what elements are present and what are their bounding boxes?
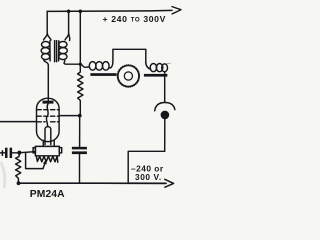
- key/jack upper arc: [155, 103, 175, 111]
- wire: rail to transformer primary top: [44, 11, 48, 40]
- wire: secondary bottom to node: [64, 60, 80, 65]
- tube base body: [35, 146, 59, 155]
- tube V1 grid 2 (dashed): [37, 115, 59, 117]
- resistor R1 (vertical zigzag): [78, 64, 83, 115]
- svg-text:300 V.: 300 V.: [135, 172, 162, 182]
- tube V1 internal lead squiggle: [46, 104, 48, 127]
- scan speck near L2: [167, 62, 171, 64]
- tube base neck: [42, 140, 44, 146]
- core bar of L2: [144, 74, 168, 77]
- wire: C1 to grid node: [12, 152, 19, 154]
- svg-text:+ 240 TO 300V: + 240 TO 300V: [103, 14, 166, 24]
- transformer T1 core: [54, 41, 56, 62]
- wire: rail to transformer secondary top: [65, 11, 69, 40]
- tube base right tab: [59, 148, 61, 153]
- node: R2 to bottom rail: [17, 181, 21, 185]
- wire bottom rail: [18, 182, 166, 184]
- wire: key down to step: [164, 119, 166, 151]
- wire: screen grid to R1/C2 node: [59, 115, 79, 117]
- toothed tone wheel: [118, 66, 139, 87]
- arrowhead bottom rail: [165, 179, 174, 187]
- faint scan smudge bottom-left: [1, 162, 5, 188]
- capacitor C2 plate 2: [72, 151, 87, 154]
- rheostat wiper arrow: [43, 163, 45, 169]
- tube V1 grid 3 (dashed): [37, 121, 45, 123]
- wire: step to bottom rail: [128, 151, 165, 183]
- wire: node down to capacitor C2: [79, 116, 81, 147]
- tube V1 envelope: [37, 98, 60, 141]
- arrowhead B+ rail: [172, 7, 181, 14]
- svg-text:PM24A: PM24A: [30, 189, 65, 200]
- wire: primary bottom to tube plate: [44, 60, 49, 101]
- capacitor C2 plate 1: [72, 147, 87, 150]
- node: rail/R1 junction: [79, 10, 83, 14]
- wire: rail down to secondary-bottom junction: [79, 11, 81, 64]
- wire: node to base left terminal: [19, 152, 35, 153]
- capacitor C1 grid condenser plate 2: [10, 148, 13, 158]
- tube V1 plate (anode): [43, 101, 54, 104]
- tube V1 grid 1 (dashed): [37, 109, 59, 111]
- filament rheostat zigzag under base: [36, 156, 58, 163]
- key/jack contact ball: [161, 111, 170, 120]
- wire: node down and right to rheostat wiper: [26, 152, 43, 168]
- capacitor C1 grid condenser plate 1: [5, 148, 8, 158]
- node: secondary/R1/L1 junction: [79, 63, 82, 66]
- inductor L1 left pickup coil: [89, 62, 96, 71]
- node: R1/C2/screen junction: [78, 114, 82, 118]
- wire: control grid to left edge: [0, 121, 37, 123]
- wire: C1 left terminal: [0, 152, 5, 154]
- core bar of L1: [90, 73, 116, 76]
- node: rail/secondary junction: [67, 10, 71, 14]
- tube base left tab: [33, 148, 35, 153]
- transformer T1 left (primary) winding: [42, 42, 50, 48]
- wire: left pickup coil lead from node: [80, 64, 88, 67]
- resistor R2 grid leak (vertical zigzag): [16, 153, 21, 184]
- tube V1 cathode: [45, 127, 51, 145]
- transformer T1 right (secondary) winding: [59, 42, 67, 48]
- wire: C2 to bottom rail: [79, 154, 81, 183]
- yoke bracket over wheel: [113, 49, 146, 62]
- inductor L2 right pickup coil: [146, 63, 151, 70]
- node: grid/C1/R2 junction: [17, 151, 21, 155]
- wire: L2 lead down to key: [164, 72, 166, 102]
- wire B+ top rail: [47, 10, 172, 11]
